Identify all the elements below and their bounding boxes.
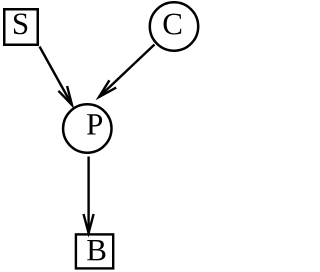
arrow P to B (wire)	[84, 157, 94, 234]
node P (circle)	[63, 104, 111, 152]
label B	[87, 240, 105, 260]
node C (circle)	[150, 2, 198, 50]
label C	[164, 14, 182, 35]
label S	[14, 13, 27, 34]
arrow S to P (wire)	[40, 47, 73, 106]
node B (square)	[76, 234, 113, 268]
node S (square)	[4, 9, 38, 45]
arrow C to P (wire)	[99, 45, 155, 98]
label P	[87, 114, 102, 134]
